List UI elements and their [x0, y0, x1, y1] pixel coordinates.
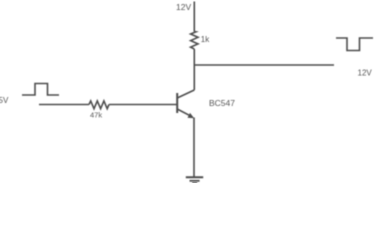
ground: [186, 176, 203, 178]
svg-text:47k: 47k: [90, 111, 102, 120]
svg-text:5V: 5V: [0, 96, 9, 105]
input pulse waveform: [22, 84, 59, 96]
wire R1 to base: [109, 104, 177, 106]
wire input to R1: [39, 104, 89, 106]
transistor Q1 emitter arrowhead: [188, 113, 195, 118]
resistor R2 1k: [191, 32, 198, 50]
wire collector vertical: [193, 49, 195, 90]
resistor R1 47k: [89, 101, 109, 109]
wire supply vertical: [193, 2, 195, 32]
transistor Q1 collector lead: [177, 90, 194, 98]
transistor Q1 emitter lead: [177, 109, 191, 116]
wire output: [194, 64, 334, 66]
svg-text:BC547: BC547: [209, 98, 235, 108]
svg-text:12V: 12V: [358, 69, 373, 78]
svg-text:12V: 12V: [176, 2, 191, 12]
transistor Q1 base bar: [176, 93, 178, 113]
svg-text:1k: 1k: [201, 35, 210, 44]
wire emitter vertical: [193, 118, 195, 178]
output pulse waveform: [336, 38, 373, 51]
